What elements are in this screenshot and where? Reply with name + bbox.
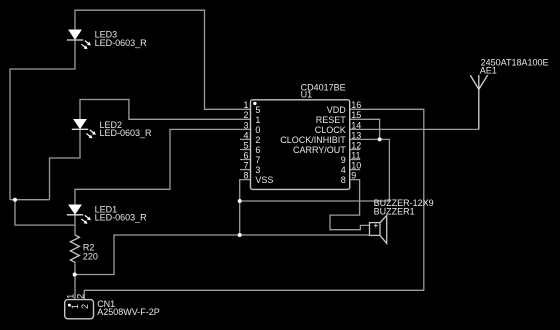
wire LED3 cathode down-left — [10, 40, 75, 200]
stub U1 pin12 — [350, 149, 361, 151]
wire LED2 cathode down-left — [50, 129, 81, 199]
wire node to LED1 cathode — [15, 200, 75, 225]
svg-text:0: 0 — [255, 125, 260, 135]
svg-text:8: 8 — [243, 171, 248, 181]
svg-text:CARRY/OUT: CARRY/OUT — [293, 145, 346, 155]
svg-text:2: 2 — [255, 135, 260, 145]
svg-text:5: 5 — [243, 140, 248, 150]
svg-text:16: 16 — [351, 100, 361, 110]
wire pin13 node down to VSS net — [380, 139, 390, 201]
junction node pin13 reset — [378, 137, 382, 141]
svg-text:5: 5 — [255, 105, 260, 115]
wire U1 pin16 VDD to CN1 pin2 — [84, 109, 424, 299]
wire joining LED3/LED2 cathodes — [10, 199, 50, 201]
svg-text:U1: U1 — [301, 90, 313, 100]
svg-text:7: 7 — [243, 161, 248, 171]
stub U1 pin5 — [240, 149, 251, 151]
pin numbers U1 right — [351, 100, 361, 180]
junction node VSS to buzzer return — [238, 233, 242, 237]
wire U1 pin9 to buzzer positive — [330, 180, 370, 230]
wire U1 pin14 CLOCK to antenna — [350, 128, 479, 130]
wire U1 pin15 RESET to pin13 — [350, 119, 380, 139]
stub U1 pin10 — [350, 169, 361, 171]
svg-text:2: 2 — [80, 304, 90, 309]
stub U1 pin11 — [350, 159, 361, 161]
svg-text:RESET: RESET — [316, 115, 347, 125]
label CN1 — [97, 299, 160, 317]
svg-text:LED-0603_R: LED-0603_R — [95, 213, 148, 223]
svg-text:LED-0603_R: LED-0603_R — [95, 38, 148, 48]
label AE1 — [480, 58, 549, 76]
junction node LED cathodes — [13, 198, 17, 202]
svg-text:13: 13 — [351, 130, 361, 140]
label U1 title — [301, 82, 346, 99]
svg-text:AE1: AE1 — [480, 65, 497, 75]
svg-text:10: 10 — [351, 161, 361, 171]
stub U1 pin7 — [240, 169, 251, 171]
label LED1 — [95, 204, 148, 222]
LED1 — [67, 205, 91, 224]
label LED3 — [95, 30, 148, 48]
svg-text:1: 1 — [243, 100, 248, 110]
junction node VSS net — [238, 199, 242, 203]
svg-text:A2508WV-F-2P: A2508WV-F-2P — [97, 307, 160, 317]
pin labels U1 inside left — [255, 105, 273, 185]
svg-text:VSS: VSS — [255, 175, 273, 185]
wire U1 pin13 stub — [350, 138, 380, 140]
resistor R2 — [70, 235, 79, 262]
svg-text:3: 3 — [255, 165, 260, 175]
svg-text:VDD: VDD — [327, 105, 347, 115]
svg-text:9: 9 — [351, 171, 356, 181]
label BUZZER1 — [374, 198, 434, 216]
svg-text:CLOCK: CLOCK — [315, 125, 346, 135]
connector CN1 — [65, 300, 94, 319]
stub U1 pin4 — [240, 138, 251, 140]
svg-text:220: 220 — [83, 251, 98, 261]
svg-text:1: 1 — [70, 304, 80, 309]
svg-text:LED-0603_R: LED-0603_R — [100, 128, 153, 138]
wire R2 bottom to CN1 pin1 — [74, 262, 76, 299]
label LED2 — [100, 120, 153, 138]
LED2 — [72, 119, 96, 138]
wire LED2 anode to U1 pin2 — [80, 100, 251, 120]
svg-text:15: 15 — [351, 110, 361, 120]
svg-text:7: 7 — [255, 155, 260, 165]
wire U1 VSS pin8 down — [240, 180, 251, 235]
wire LED1 cathode to R2 — [74, 215, 76, 235]
antenna AE1 — [470, 75, 487, 129]
pin labels U1 inside right — [280, 105, 346, 185]
svg-text:1: 1 — [255, 115, 260, 125]
junction node R2 bottom — [73, 273, 77, 277]
svg-text:6: 6 — [243, 150, 248, 160]
svg-text:12: 12 — [351, 140, 361, 150]
LED3 — [67, 30, 91, 50]
svg-text:CLOCK/INHIBIT: CLOCK/INHIBIT — [280, 135, 346, 145]
wire VSS node to reset net — [240, 200, 390, 202]
stub U1 pin6 — [240, 159, 251, 161]
svg-text:1: 1 — [65, 294, 75, 299]
svg-text:BUZZER1: BUZZER1 — [374, 206, 415, 216]
svg-text:3: 3 — [243, 120, 248, 130]
svg-text:4: 4 — [341, 165, 346, 175]
svg-text:4: 4 — [243, 130, 248, 140]
svg-text:9: 9 — [341, 155, 346, 165]
svg-text:8: 8 — [341, 175, 346, 185]
svg-text:14: 14 — [351, 120, 361, 130]
svg-text:2: 2 — [75, 294, 85, 299]
label R2 — [83, 242, 98, 261]
svg-text:6: 6 — [255, 145, 260, 155]
op-amp U1 body CD4017BE — [251, 100, 350, 190]
wire LED3 anode to U1 pin1 — [75, 10, 251, 109]
wire LED1 anode to U1 pin3 — [75, 129, 251, 204]
svg-text:11: 11 — [351, 150, 360, 160]
wire R2 node to buzzer negative — [75, 235, 370, 275]
pin numbers U1 left — [243, 100, 248, 180]
svg-text:2: 2 — [243, 110, 248, 120]
buzzer BUZZER1 — [370, 215, 387, 243]
